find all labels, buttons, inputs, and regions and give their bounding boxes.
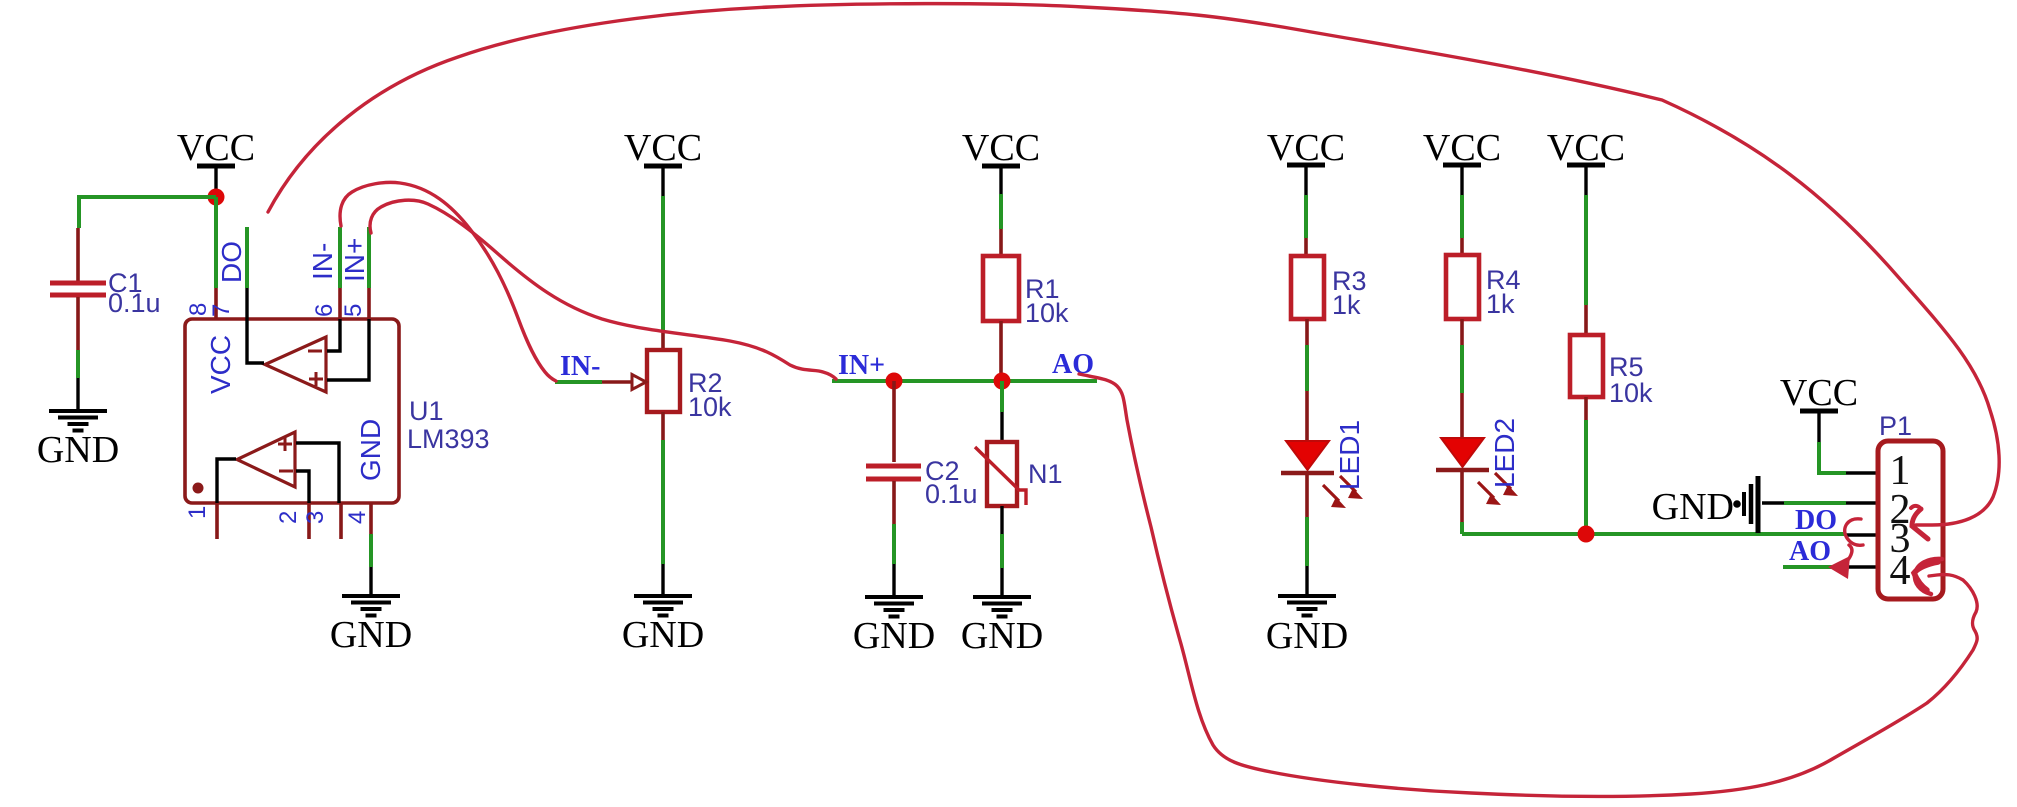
power VCC (net at U1 pin 8 / C1)	[177, 127, 255, 191]
wire VCC junction to C1 top	[79, 197, 216, 228]
power VCC (P1 pin 1)	[1780, 372, 1858, 442]
svg-text:N1: N1	[1028, 459, 1063, 489]
svg-text:0.1u: 0.1u	[108, 288, 161, 318]
svg-text:5: 5	[340, 304, 367, 317]
svg-text:GND: GND	[853, 615, 935, 657]
wire IN+ stub at U1 pin 5	[367, 227, 371, 288]
svg-text:GND: GND	[37, 429, 119, 471]
svg-text:10k: 10k	[688, 392, 732, 422]
resistor R3 1k	[1291, 256, 1367, 320]
wire IN- net to R2 wiper	[555, 380, 602, 384]
svg-text:DO: DO	[1795, 505, 1837, 536]
wire AO stub at P1 pin 4	[1783, 565, 1836, 569]
wire VCC to R1	[999, 194, 1003, 229]
wire R1 bottom to IN+ net	[999, 321, 1003, 381]
wire IN- stub at U1 pin 6	[338, 227, 342, 288]
wire R5 bottom to DO net	[1584, 397, 1588, 420]
ground GND port (P1 pin 2)	[1652, 476, 1758, 533]
power VCC (R5 top)	[1547, 127, 1625, 195]
LED LED2	[1436, 418, 1520, 505]
op-amp U1 LM393 body	[185, 319, 490, 503]
U1 internal wire comparator B inverting input to pin2	[296, 471, 309, 503]
svg-text:GND: GND	[1266, 615, 1348, 657]
U1 pin 4 stub	[369, 503, 373, 534]
svg-text:0.1u: 0.1u	[925, 479, 978, 509]
capacitor C1	[50, 228, 161, 350]
power VCC (R2 top)	[624, 127, 702, 196]
node VCC junction	[208, 189, 225, 206]
node junction at R5/DO	[1578, 526, 1595, 543]
U1 pin-1 indicator dot	[193, 483, 204, 494]
R2 wiper arrow	[602, 375, 646, 390]
wire annotation: small hook at DO wire (P1 pin3)	[1845, 519, 1863, 545]
wire LED2 to DO net	[1460, 472, 1464, 522]
svg-text:1k: 1k	[1486, 289, 1515, 319]
svg-text:IN+: IN+	[339, 238, 370, 282]
wire VCC to R2	[661, 196, 665, 330]
svg-text:DO: DO	[216, 241, 247, 283]
ground GND (LED1)	[1266, 596, 1348, 657]
thermistor N1	[975, 442, 1063, 506]
svg-text:1k: 1k	[1332, 290, 1361, 320]
U1 internal wire pin6 to comparator A inverting input	[327, 319, 340, 351]
U1 pin 7 stub	[245, 288, 248, 319]
LED LED1	[1281, 420, 1365, 508]
svg-text:GND: GND	[622, 614, 704, 656]
resistor R1 10k	[983, 256, 1069, 328]
U1 pin 1 stub	[215, 503, 219, 539]
svg-text:GND: GND	[1652, 486, 1734, 528]
wire U1 pin 4 to ground	[369, 534, 373, 567]
wire GND port to P1 pin 2	[1762, 501, 1784, 504]
node junction at C2	[886, 373, 903, 390]
resistor R4 1k	[1446, 255, 1521, 319]
ground GND (N1)	[961, 597, 1043, 657]
wire VCC junction to U1 pin 8	[214, 197, 218, 288]
U1 internal wire pin7 to comparator A output	[247, 319, 264, 363]
svg-text:LED2: LED2	[1489, 418, 1520, 488]
wire annotation: IN- pin6 to IN- label	[340, 182, 556, 381]
U1 pin 8 stub	[214, 288, 218, 319]
wire DO net into P1 pin 3	[1846, 533, 1878, 536]
U1 pin 6 stub	[338, 288, 342, 319]
wire junction to N1	[1000, 381, 1004, 412]
wire annotation: AO label to P1 pin4 (big bottom loop)	[1079, 374, 1977, 797]
svg-text:10k: 10k	[1025, 298, 1069, 328]
svg-text:10k: 10k	[1609, 378, 1653, 408]
node junction at R1/N1	[994, 373, 1011, 390]
svg-text:IN+: IN+	[838, 350, 885, 381]
capacitor C2 0.1u	[866, 456, 978, 509]
wire VCC to P1 pin 1	[1819, 442, 1846, 473]
wire annotation: small arrow at AO wire (P1 pin4)	[1828, 545, 1852, 579]
U1 comparator A triangle (top)	[265, 337, 326, 392]
U1 pin 3 stub	[339, 503, 343, 539]
wire VCC to R4	[1460, 195, 1464, 238]
svg-text:2: 2	[275, 511, 302, 524]
wire N1 bottom to ground	[1000, 506, 1003, 534]
svg-text:IN-: IN-	[307, 243, 338, 280]
connector P1	[1878, 411, 1943, 599]
svg-text:VCC: VCC	[177, 127, 255, 169]
svg-text:6: 6	[311, 304, 338, 317]
wire annotation: DO pin7 to P1 pin3 (big top loop)	[268, 4, 1999, 539]
svg-text:IN-: IN-	[560, 351, 600, 382]
wire VCC to R3	[1304, 195, 1308, 238]
ground GND (C1)	[37, 411, 119, 471]
svg-text:P1: P1	[1879, 411, 1912, 441]
U1 pin 2 stub	[307, 503, 311, 539]
svg-text:LED1: LED1	[1334, 420, 1365, 490]
svg-text:U1: U1	[409, 396, 444, 426]
U1 pin 5 stub	[367, 288, 371, 319]
U1 internal wire comparator B non-inverting input to pin3	[296, 443, 339, 503]
svg-text:3: 3	[302, 511, 329, 524]
wire C2 bottom to ground	[892, 481, 896, 524]
resistor R5 10k	[1570, 335, 1653, 408]
svg-text:4: 4	[1890, 548, 1911, 594]
svg-text:VCC: VCC	[624, 127, 702, 169]
potentiometer R2 10k	[647, 350, 732, 422]
svg-text:7: 7	[208, 304, 235, 317]
wire R3 to LED1	[1305, 319, 1309, 345]
ground GND (C2)	[853, 597, 935, 657]
wire VCC to R5	[1584, 195, 1588, 305]
wire DO stub at U1 pin 7	[245, 227, 249, 288]
power VCC (R1 top)	[962, 127, 1040, 194]
svg-text:LM393: LM393	[407, 424, 490, 454]
wire R2 bottom to ground	[661, 412, 665, 440]
wire junction to C2	[892, 381, 896, 462]
svg-text:GND: GND	[330, 614, 412, 656]
wire LED1 to ground	[1305, 475, 1309, 517]
power VCC (R3 top)	[1267, 127, 1345, 195]
U1 internal wire comparator B output to pin1	[217, 459, 236, 503]
power VCC (R4 top)	[1423, 127, 1501, 195]
wire R4 to LED2	[1460, 319, 1464, 345]
svg-text:VCC: VCC	[962, 127, 1040, 169]
svg-text:VCC: VCC	[205, 335, 236, 394]
svg-text:AO: AO	[1789, 536, 1831, 567]
ground GND (U1 pin 4)	[330, 596, 412, 656]
wire IN+ / AO horizontal net	[832, 379, 1097, 383]
svg-text:GND: GND	[355, 419, 386, 481]
svg-text:GND: GND	[961, 615, 1043, 657]
U1 comparator B triangle (bottom)	[237, 432, 295, 487]
U1 internal wire pin5 to comparator A non-inverting input	[327, 319, 369, 380]
svg-text:1: 1	[184, 506, 211, 519]
ground GND (R2)	[622, 596, 704, 656]
wire annotation: IN+ pin5 to IN+ label	[370, 200, 836, 379]
svg-text:VCC: VCC	[1780, 372, 1858, 414]
wire DO horizontal net	[1462, 532, 1846, 536]
wire C1 bottom to ground	[76, 350, 80, 378]
svg-text:4: 4	[344, 511, 371, 524]
